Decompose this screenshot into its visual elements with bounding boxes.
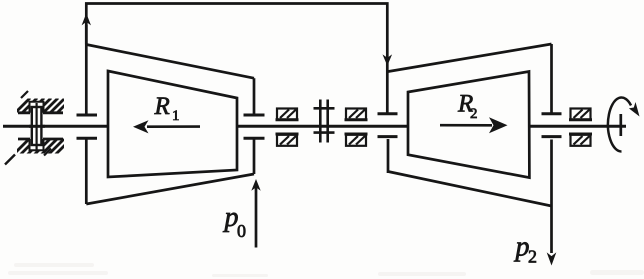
journal bearing B (right of coupling) top — [345, 109, 368, 120]
journal bearing A bottom — [276, 134, 299, 146]
turbine 2 rotor trapezoid — [408, 72, 529, 178]
journal bearing C (right end) top — [569, 109, 592, 120]
shaft segment middle — [237, 125, 408, 128]
svg-text:1: 1 — [172, 108, 180, 124]
shaft segment right — [529, 125, 626, 128]
flow arrow up into pipe — [85, 25, 88, 45]
gland seal left of turbine 1 — [77, 114, 98, 117]
journal bearing C bottom — [569, 134, 592, 146]
shaft across collar — [29, 125, 45, 128]
R1 flow arrow — [147, 125, 200, 128]
svg-text:R: R — [154, 93, 170, 120]
rotation direction arrow — [608, 98, 631, 152]
thrust collar centerline — [35, 103, 37, 152]
shaft segment left — [3, 125, 108, 128]
turbine 1 rotor trapezoid — [108, 71, 237, 177]
shaft end tick — [619, 114, 622, 136]
shaft coupling — [314, 100, 335, 143]
top connecting pipe — [86, 4, 387, 114]
p0 inlet arrow — [255, 186, 258, 248]
p2 outlet arrow / casing right wall — [550, 140, 553, 254]
gland seal right of turbine 1 — [244, 114, 265, 117]
journal bearing B bottom — [345, 134, 368, 146]
R2 flow arrow — [440, 124, 492, 127]
svg-text:2: 2 — [470, 106, 478, 122]
journal bearing A (left of coupling) top — [276, 109, 299, 120]
gland seal left of turbine 2 — [378, 112, 398, 115]
turbine 1 casing left wall upper — [85, 45, 88, 114]
faint scan smudges bottom — [8, 263, 644, 277]
thrust collar — [32, 107, 42, 145]
turbine 2 outer casing — [388, 44, 551, 72]
gland seal right of turbine 2 — [542, 112, 562, 115]
svg-text:2: 2 — [528, 247, 537, 267]
svg-text:0: 0 — [237, 221, 246, 241]
turbine 1 outer casing — [86, 45, 254, 79]
flow arrow down into turbine 2 — [383, 54, 393, 65]
